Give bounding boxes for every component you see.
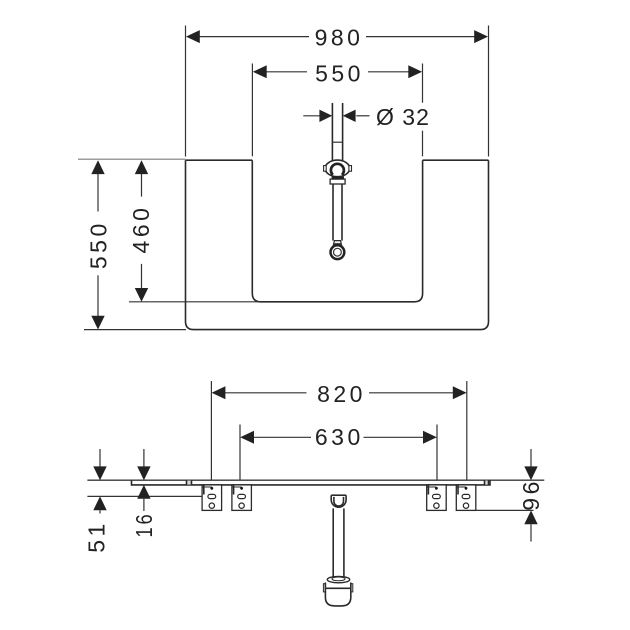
svg-text:Ø 32: Ø 32	[376, 104, 430, 130]
svg-text:980: 980	[315, 25, 364, 51]
svg-text:630: 630	[315, 424, 364, 450]
svg-text:96: 96	[518, 478, 544, 511]
svg-text:16: 16	[131, 512, 157, 538]
svg-text:51: 51	[84, 520, 110, 553]
svg-text:550: 550	[86, 220, 112, 269]
svg-text:550: 550	[315, 61, 364, 87]
svg-text:460: 460	[128, 205, 154, 254]
svg-text:820: 820	[317, 381, 366, 407]
